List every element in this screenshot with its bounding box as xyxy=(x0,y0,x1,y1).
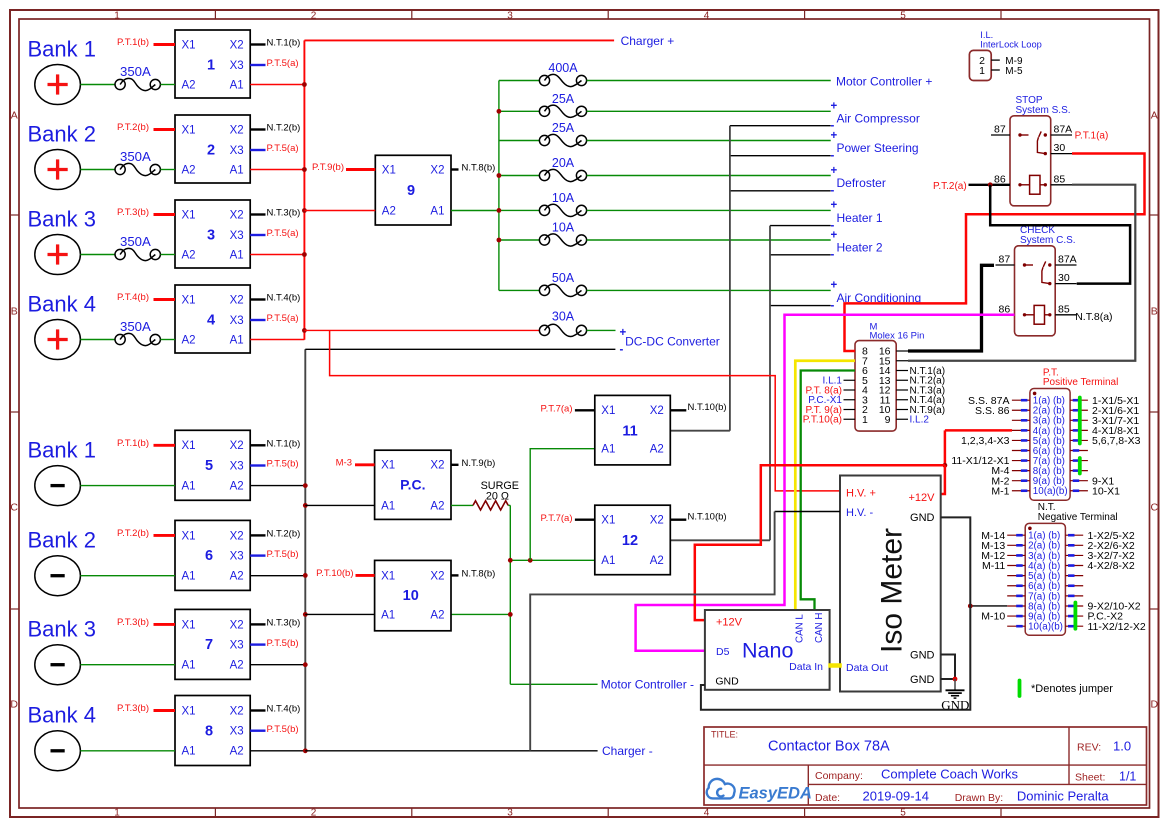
svg-text:N.T.3(b): N.T.3(b) xyxy=(267,208,301,219)
svg-text:X2: X2 xyxy=(230,530,244,542)
svg-text:N.T.9(b): N.T.9(b) xyxy=(462,458,496,469)
svg-text:10(a)(b): 10(a)(b) xyxy=(1033,486,1068,497)
svg-text:P.T.5(a): P.T.5(a) xyxy=(267,228,299,239)
svg-text:A2: A2 xyxy=(650,555,664,567)
svg-text:Motor Controller -: Motor Controller - xyxy=(601,677,694,691)
svg-text:P.C.: P.C. xyxy=(400,477,425,493)
svg-text:4: 4 xyxy=(704,11,710,22)
svg-text:C: C xyxy=(1151,502,1159,514)
svg-text:350A: 350A xyxy=(120,64,151,79)
svg-text:A2: A2 xyxy=(430,609,444,621)
svg-text:X3: X3 xyxy=(230,460,244,472)
svg-text:Bank 2: Bank 2 xyxy=(28,121,97,146)
svg-text:P.T.9(b): P.T.9(b) xyxy=(312,162,344,173)
svg-text:20A: 20A xyxy=(552,156,575,170)
svg-text:X3: X3 xyxy=(230,315,244,327)
svg-text:P.T.5(b): P.T.5(b) xyxy=(267,724,299,735)
svg-text:-: - xyxy=(831,150,835,162)
svg-text:P.T.5(b): P.T.5(b) xyxy=(267,638,299,649)
svg-text:5: 5 xyxy=(205,458,213,474)
svg-text:86: 86 xyxy=(999,303,1011,315)
svg-text:I.L.2: I.L.2 xyxy=(910,415,930,426)
svg-text:C: C xyxy=(10,502,18,514)
svg-text:A1: A1 xyxy=(601,444,615,456)
svg-text:30: 30 xyxy=(1054,142,1066,154)
svg-text:P.T.3(b): P.T.3(b) xyxy=(117,207,149,218)
svg-text:7: 7 xyxy=(205,637,213,653)
svg-text:A1: A1 xyxy=(601,555,615,567)
svg-text:System S.S.: System S.S. xyxy=(1016,105,1071,116)
svg-text:CAN L: CAN L xyxy=(795,614,806,643)
svg-text:N.T.2(b): N.T.2(b) xyxy=(267,529,301,540)
svg-text:P.T.2(a): P.T.2(a) xyxy=(933,181,967,192)
svg-text:TITLE:: TITLE: xyxy=(711,730,738,740)
svg-text:Date:: Date: xyxy=(815,792,840,804)
svg-text:A2: A2 xyxy=(230,660,244,672)
svg-text:A1: A1 xyxy=(230,164,244,176)
svg-text:1: 1 xyxy=(207,58,215,74)
svg-text:N.T.1(b): N.T.1(b) xyxy=(267,38,301,49)
svg-text:X2: X2 xyxy=(230,124,244,136)
svg-text:1: 1 xyxy=(862,414,868,426)
svg-text:4: 4 xyxy=(207,313,215,329)
svg-text:87A: 87A xyxy=(1058,254,1077,266)
svg-text:A1: A1 xyxy=(230,334,244,346)
svg-text:1: 1 xyxy=(979,65,985,77)
svg-text:+12V: +12V xyxy=(716,617,743,629)
svg-text:A2: A2 xyxy=(430,500,444,512)
svg-text:10A: 10A xyxy=(552,191,575,205)
svg-text:1: 1 xyxy=(114,11,120,22)
svg-text:X2: X2 xyxy=(230,39,244,51)
svg-text:X2: X2 xyxy=(430,570,444,582)
svg-text:A2: A2 xyxy=(230,481,244,493)
svg-text:M-5: M-5 xyxy=(1005,66,1023,77)
svg-text:87: 87 xyxy=(994,124,1006,136)
svg-text:X1: X1 xyxy=(601,405,615,417)
svg-text:N.T.4(b): N.T.4(b) xyxy=(267,704,301,715)
svg-text:A: A xyxy=(1151,110,1158,122)
svg-text:4: 4 xyxy=(704,808,710,819)
svg-text:GND: GND xyxy=(941,697,969,712)
svg-text:A1: A1 xyxy=(381,500,395,512)
svg-text:350A: 350A xyxy=(120,149,151,164)
svg-text:1.0: 1.0 xyxy=(1113,739,1131,754)
svg-text:400A: 400A xyxy=(548,61,578,75)
svg-text:X2: X2 xyxy=(230,440,244,452)
svg-text:1/1: 1/1 xyxy=(1119,769,1136,783)
svg-text:M-11: M-11 xyxy=(982,560,1005,572)
svg-text:+: + xyxy=(831,200,838,212)
svg-text:4-X2/8-X2: 4-X2/8-X2 xyxy=(1088,560,1135,572)
svg-text:10: 10 xyxy=(403,588,419,604)
svg-text:20 Ω: 20 Ω xyxy=(486,491,509,503)
svg-text:2: 2 xyxy=(311,11,317,22)
svg-text:X3: X3 xyxy=(230,640,244,652)
svg-text:H.V. -: H.V. - xyxy=(846,507,873,519)
svg-text:3: 3 xyxy=(507,808,513,819)
svg-text:N.T.10(b): N.T.10(b) xyxy=(688,402,727,413)
svg-text:M-3: M-3 xyxy=(336,457,352,468)
svg-text:1: 1 xyxy=(114,808,120,819)
svg-text:85: 85 xyxy=(1058,303,1070,315)
svg-text:Bank 1: Bank 1 xyxy=(28,437,97,462)
svg-text:EasyEDA: EasyEDA xyxy=(739,785,812,803)
svg-text:-: - xyxy=(831,249,835,261)
svg-text:85: 85 xyxy=(1054,173,1066,185)
svg-text:P.T.3(b): P.T.3(b) xyxy=(117,617,149,628)
svg-text:REV:: REV: xyxy=(1077,742,1101,754)
svg-text:DC-DC Converter: DC-DC Converter xyxy=(625,335,720,349)
svg-text:+: + xyxy=(831,165,838,177)
svg-text:87: 87 xyxy=(999,254,1011,266)
svg-text:X1: X1 xyxy=(381,570,395,582)
svg-text:X1: X1 xyxy=(182,294,196,306)
svg-text:Nano: Nano xyxy=(742,639,793,663)
svg-text:A2: A2 xyxy=(650,444,664,456)
svg-text:P.T.5(a): P.T.5(a) xyxy=(267,313,299,324)
svg-text:87A: 87A xyxy=(1054,124,1073,136)
svg-text:350A: 350A xyxy=(120,319,151,334)
svg-text:A1: A1 xyxy=(230,249,244,261)
svg-text:Power Steering: Power Steering xyxy=(837,141,919,155)
svg-text:A2: A2 xyxy=(382,205,396,217)
svg-text:X2: X2 xyxy=(230,705,244,717)
svg-text:10A: 10A xyxy=(552,221,575,235)
svg-text:Defroster: Defroster xyxy=(837,176,886,190)
svg-text:N.T.2(b): N.T.2(b) xyxy=(267,123,301,134)
svg-text:S.S. 86: S.S. 86 xyxy=(975,405,1010,417)
svg-text:A1: A1 xyxy=(182,660,196,672)
svg-text:System C.S.: System C.S. xyxy=(1020,235,1076,246)
svg-text:P.T.2(b): P.T.2(b) xyxy=(117,528,149,539)
svg-text:P.T.5(a): P.T.5(a) xyxy=(267,143,299,154)
svg-text:Bank 4: Bank 4 xyxy=(28,291,97,316)
svg-text:P.T.1(b): P.T.1(b) xyxy=(117,37,149,48)
svg-text:X2: X2 xyxy=(650,405,664,417)
svg-text:InterLock Loop: InterLock Loop xyxy=(980,39,1042,49)
svg-text:Bank 1: Bank 1 xyxy=(28,36,97,61)
svg-text:Sheet:: Sheet: xyxy=(1075,772,1105,784)
svg-text:-: - xyxy=(831,300,835,312)
svg-text:Company:: Company: xyxy=(815,770,863,782)
svg-text:A2: A2 xyxy=(230,746,244,758)
svg-text:D: D xyxy=(10,699,18,711)
svg-text:10-X1: 10-X1 xyxy=(1092,485,1120,497)
svg-text:3: 3 xyxy=(507,11,513,22)
svg-text:A2: A2 xyxy=(182,249,196,261)
svg-text:N.T.8(b): N.T.8(b) xyxy=(462,163,496,174)
svg-text:X3: X3 xyxy=(230,145,244,157)
svg-text:GND: GND xyxy=(910,512,935,524)
svg-text:350A: 350A xyxy=(120,234,151,249)
svg-text:X2: X2 xyxy=(650,515,664,527)
svg-text:N.T.4(b): N.T.4(b) xyxy=(267,293,301,304)
svg-text:8: 8 xyxy=(205,723,213,739)
svg-text:Bank 3: Bank 3 xyxy=(28,617,97,642)
svg-text:2019-09-14: 2019-09-14 xyxy=(863,789,930,804)
svg-text:D: D xyxy=(1151,699,1159,711)
svg-text:X1: X1 xyxy=(182,705,196,717)
svg-text:B: B xyxy=(11,306,18,318)
svg-text:Data Out: Data Out xyxy=(846,662,888,674)
svg-text:P.T.5(b): P.T.5(b) xyxy=(267,459,299,470)
svg-text:A2: A2 xyxy=(182,79,196,91)
svg-text:10(a)(b): 10(a)(b) xyxy=(1028,622,1063,633)
svg-text:X1: X1 xyxy=(182,530,196,542)
svg-text:GND: GND xyxy=(715,676,739,688)
svg-text:Iso Meter: Iso Meter xyxy=(876,528,909,653)
svg-text:P.T.5(a): P.T.5(a) xyxy=(267,58,299,69)
svg-text:9: 9 xyxy=(407,183,415,199)
svg-text:Heater 2: Heater 2 xyxy=(837,240,883,254)
svg-text:X1: X1 xyxy=(601,515,615,527)
svg-text:A1: A1 xyxy=(230,79,244,91)
svg-text:50A: 50A xyxy=(552,271,575,285)
svg-text:Dominic Peralta: Dominic Peralta xyxy=(1017,789,1110,804)
svg-text:M-1: M-1 xyxy=(991,485,1009,497)
svg-text:P.T.5(b): P.T.5(b) xyxy=(267,549,299,560)
svg-text:P.T.7(a): P.T.7(a) xyxy=(540,404,572,415)
svg-text:P.T.4(b): P.T.4(b) xyxy=(117,292,149,303)
svg-text:P.T.3(b): P.T.3(b) xyxy=(117,703,149,714)
svg-text:M-10: M-10 xyxy=(981,611,1005,623)
svg-text:X3: X3 xyxy=(230,726,244,738)
svg-text:P.T.1(a): P.T.1(a) xyxy=(1075,130,1109,141)
svg-text:X1: X1 xyxy=(182,440,196,452)
svg-text:X3: X3 xyxy=(230,230,244,242)
svg-text:Heater 1: Heater 1 xyxy=(837,211,883,225)
svg-text:25A: 25A xyxy=(552,121,575,135)
svg-text:Drawn By:: Drawn By: xyxy=(955,792,1003,804)
svg-text:CAN H: CAN H xyxy=(814,613,825,643)
svg-text:Molex 16 Pin: Molex 16 Pin xyxy=(870,330,925,341)
svg-text:*Denotes jumper: *Denotes jumper xyxy=(1031,683,1113,695)
svg-text:Air Compressor: Air Compressor xyxy=(837,112,920,126)
svg-text:-: - xyxy=(831,185,835,197)
svg-text:N.T.10(b): N.T.10(b) xyxy=(688,511,727,522)
svg-text:N.T.3(b): N.T.3(b) xyxy=(267,618,301,629)
svg-text:9: 9 xyxy=(885,414,891,426)
svg-text:A1: A1 xyxy=(381,609,395,621)
svg-text:GND: GND xyxy=(910,674,935,686)
svg-text:P.T.1(b): P.T.1(b) xyxy=(117,438,149,449)
svg-text:2: 2 xyxy=(207,143,215,159)
svg-text:P.T.7(a): P.T.7(a) xyxy=(540,513,572,524)
svg-text:+: + xyxy=(831,280,838,292)
svg-text:P.T.10(b): P.T.10(b) xyxy=(316,568,353,579)
svg-text:1,2,3,4-X3: 1,2,3,4-X3 xyxy=(961,435,1010,447)
svg-text:5: 5 xyxy=(900,808,906,819)
svg-text:30: 30 xyxy=(1058,272,1070,284)
svg-text:+12V: +12V xyxy=(909,492,936,504)
svg-text:X1: X1 xyxy=(182,39,196,51)
svg-text:+: + xyxy=(831,130,838,142)
svg-text:X2: X2 xyxy=(230,294,244,306)
svg-text:A1: A1 xyxy=(430,205,444,217)
svg-text:Motor Controller +: Motor Controller + xyxy=(836,75,932,89)
svg-text:3: 3 xyxy=(207,228,215,244)
svg-text:X1: X1 xyxy=(382,164,396,176)
svg-text:Bank 3: Bank 3 xyxy=(28,206,97,231)
svg-text:N.T.8(b): N.T.8(b) xyxy=(462,569,496,580)
svg-text:5: 5 xyxy=(900,11,906,22)
svg-text:X1: X1 xyxy=(182,124,196,136)
svg-text:Data In: Data In xyxy=(789,661,823,673)
svg-text:Complete Coach Works: Complete Coach Works xyxy=(881,767,1019,782)
svg-text:A: A xyxy=(11,110,18,122)
svg-text:Charger +: Charger + xyxy=(621,34,675,48)
svg-text:A2: A2 xyxy=(182,164,196,176)
svg-text:GND: GND xyxy=(910,649,935,661)
svg-text:A2: A2 xyxy=(182,334,196,346)
svg-text:Contactor Box 78A: Contactor Box 78A xyxy=(768,739,890,755)
svg-text:11-X2/12-X2: 11-X2/12-X2 xyxy=(1088,621,1146,633)
svg-text:Bank 4: Bank 4 xyxy=(28,703,97,728)
svg-text:X2: X2 xyxy=(430,460,444,472)
svg-text:Bank 2: Bank 2 xyxy=(28,528,97,553)
svg-text:P.T.2(b): P.T.2(b) xyxy=(117,122,149,133)
svg-text:25A: 25A xyxy=(552,92,575,106)
svg-text:X2: X2 xyxy=(230,209,244,221)
svg-text:86: 86 xyxy=(994,173,1006,185)
svg-text:X1: X1 xyxy=(182,619,196,631)
svg-text:X2: X2 xyxy=(230,619,244,631)
svg-text:Positive Terminal: Positive Terminal xyxy=(1043,377,1118,388)
svg-text:Charger -: Charger - xyxy=(602,744,653,758)
svg-text:A1: A1 xyxy=(182,571,196,583)
svg-text:-: - xyxy=(620,344,624,356)
svg-text:2: 2 xyxy=(311,808,317,819)
svg-text:12: 12 xyxy=(622,533,638,549)
svg-text:11: 11 xyxy=(622,423,637,439)
svg-text:6: 6 xyxy=(205,548,213,564)
svg-text:30A: 30A xyxy=(552,309,575,323)
svg-text:P.T.10(a): P.T.10(a) xyxy=(803,415,842,426)
svg-text:A2: A2 xyxy=(230,571,244,583)
svg-text:N.T.8(a): N.T.8(a) xyxy=(1075,311,1112,323)
svg-text:X2: X2 xyxy=(430,164,444,176)
svg-text:H.V. +: H.V. + xyxy=(846,488,876,500)
svg-text:Negative Terminal: Negative Terminal xyxy=(1038,512,1118,523)
svg-text:D5: D5 xyxy=(716,646,730,658)
svg-text:B: B xyxy=(1151,306,1158,318)
svg-text:A1: A1 xyxy=(182,481,196,493)
svg-text:X3: X3 xyxy=(230,60,244,72)
svg-text:X1: X1 xyxy=(182,209,196,221)
svg-text:5,6,7,8-X3: 5,6,7,8-X3 xyxy=(1092,435,1141,447)
svg-text:A1: A1 xyxy=(182,746,196,758)
svg-text:X1: X1 xyxy=(381,460,395,472)
svg-text:N.T.1(b): N.T.1(b) xyxy=(267,439,301,450)
svg-text:X3: X3 xyxy=(230,551,244,563)
